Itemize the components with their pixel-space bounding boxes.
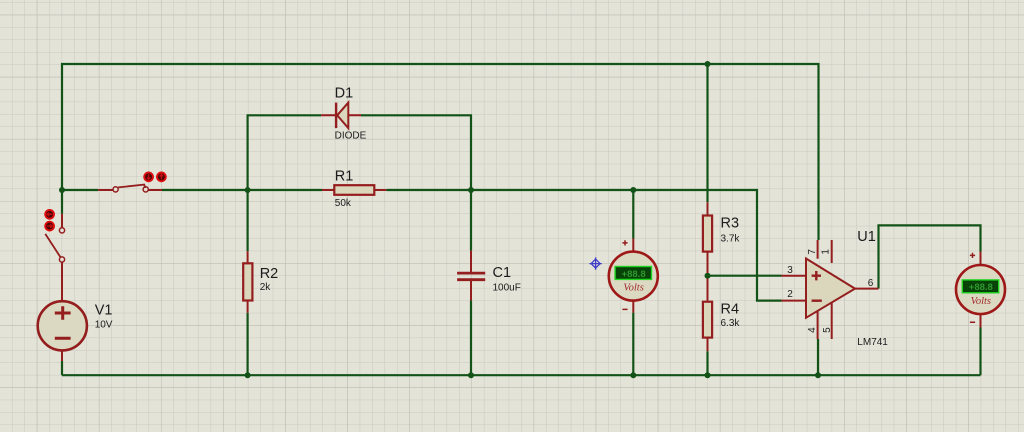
svg-text:LM741: LM741 xyxy=(857,337,888,348)
svg-text:7: 7 xyxy=(807,249,818,255)
svg-text:DIODE: DIODE xyxy=(335,131,367,142)
svg-text:D1: D1 xyxy=(335,85,354,101)
svg-text:R1: R1 xyxy=(335,168,354,184)
svg-text:V1: V1 xyxy=(95,303,113,319)
svg-text:+88.8: +88.8 xyxy=(622,269,646,280)
svg-text:R4: R4 xyxy=(721,301,740,317)
svg-text:Volts: Volts xyxy=(623,283,643,294)
svg-text:4: 4 xyxy=(807,327,818,333)
svg-text:3.7k: 3.7k xyxy=(721,234,741,245)
svg-text:C1: C1 xyxy=(493,265,512,281)
svg-text:R3: R3 xyxy=(721,215,740,231)
svg-text:2: 2 xyxy=(787,289,793,300)
svg-text:6: 6 xyxy=(868,278,874,289)
svg-text:U1: U1 xyxy=(857,229,876,245)
svg-text:Volts: Volts xyxy=(971,296,991,307)
svg-text:6.3k: 6.3k xyxy=(721,318,741,329)
svg-text:1: 1 xyxy=(821,249,832,255)
svg-text:5: 5 xyxy=(822,327,833,333)
svg-text:10V: 10V xyxy=(95,319,113,330)
svg-text:50k: 50k xyxy=(335,198,352,209)
svg-text:100uF: 100uF xyxy=(493,282,521,293)
svg-text:3: 3 xyxy=(787,265,793,276)
svg-text:+88.8: +88.8 xyxy=(969,282,993,293)
svg-text:R2: R2 xyxy=(260,266,279,282)
svg-text:2k: 2k xyxy=(260,282,272,293)
